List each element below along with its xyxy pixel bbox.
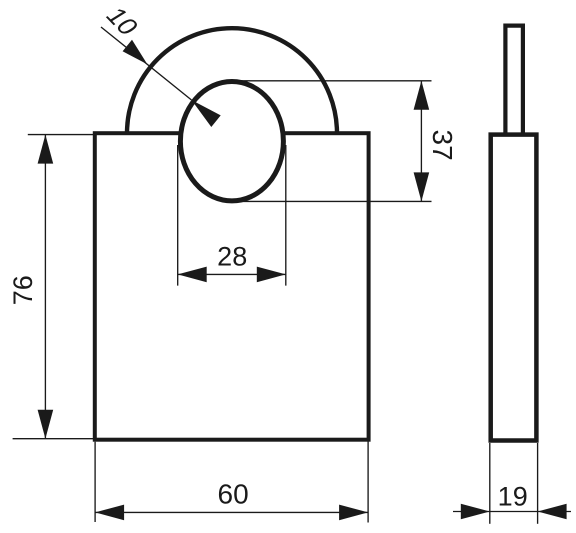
shackle inner opening ellipse [180, 82, 283, 201]
svg-text:37: 37 [427, 130, 458, 161]
shackle outer arc [127, 28, 337, 133]
extension line right (dim 19) [537, 443, 539, 524]
dimension line (dim 19) [453, 511, 571, 513]
dimension line (dim 28) [178, 273, 286, 275]
extension line top (dim 76) [28, 134, 95, 136]
padlock body side view [491, 135, 537, 441]
extension line top (dim 37) [232, 80, 432, 82]
svg-text:60: 60 [218, 478, 249, 509]
arrowhead on inner ellipse (dim 10) [192, 100, 221, 127]
extension line right (dim 60) [367, 441, 369, 522]
up arrowhead (dim 76) [38, 135, 54, 164]
extension line bottom (dim 76) [13, 438, 95, 440]
shackle rod side view [505, 26, 523, 136]
extension line left (dim 60) [94, 442, 96, 522]
dimension line (dim 37) [420, 81, 422, 202]
left arrowhead (dim 19) [461, 504, 490, 520]
extension line right (dim 28) [285, 145, 287, 286]
left arrowhead (dim 60) [95, 505, 124, 521]
padlock body front view [95, 133, 369, 440]
dimension line (dim 76) [44, 135, 46, 439]
svg-text:19: 19 [498, 482, 528, 512]
svg-text:76: 76 [8, 275, 38, 305]
down arrowhead (dim 76) [38, 410, 54, 439]
right arrowhead (dim 60) [339, 505, 368, 521]
dimension line (dim 60) [95, 511, 368, 513]
left arrowhead (dim 28) [178, 267, 207, 283]
down arrowhead (dim 37) [414, 172, 430, 201]
arrowhead on outer arc (dim 10) [123, 40, 148, 64]
up arrowhead (dim 37) [414, 81, 430, 110]
extension line left (dim 28) [177, 145, 179, 286]
leader line for dim 10 [101, 27, 192, 100]
extension line left (dim 19) [489, 443, 491, 524]
right arrowhead (dim 19) [538, 504, 567, 520]
svg-text:28: 28 [217, 242, 247, 272]
extension line bottom (dim 37) [232, 200, 432, 202]
right arrowhead (dim 28) [257, 267, 286, 283]
